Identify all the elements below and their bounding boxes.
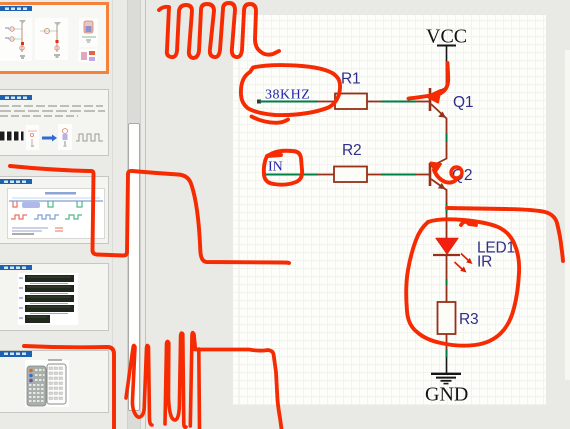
pin R2 left xyxy=(318,174,334,176)
slide 4 title bar xyxy=(0,265,32,270)
slide 1 sub-card d xyxy=(78,49,97,62)
title bar glyph marks xyxy=(4,8,27,356)
annotation blob around LED1 and R3 xyxy=(406,219,519,345)
svg-text:R3: R3 xyxy=(459,311,478,328)
pin Q1 collector upper xyxy=(446,71,448,87)
pin Q1 base xyxy=(416,101,430,103)
LED IR emission arrows xyxy=(455,254,473,273)
slide 4 oscilloscope bars xyxy=(19,275,74,323)
VCC power bar xyxy=(437,45,456,47)
slide 1 mini photo c xyxy=(82,21,96,42)
slide 1 mini photo d xyxy=(81,51,95,61)
ground symbol xyxy=(431,374,461,384)
wire R3 to GND xyxy=(446,334,448,349)
panel divider xyxy=(145,0,146,429)
slide 1 mini circuit a xyxy=(5,20,26,58)
svg-text:IN: IN xyxy=(268,160,283,175)
scrollbar track xyxy=(127,0,141,429)
slide 3 mini timing diagram xyxy=(9,192,103,234)
svg-text:VCC: VCC xyxy=(426,26,467,48)
annotation tail under ellipse xyxy=(252,117,289,123)
slide 2 blue arrow xyxy=(42,135,57,142)
wire VCC to Q1 collector (black part) xyxy=(446,46,448,62)
schematic sheet with grid xyxy=(233,15,546,405)
slide 5 title bar xyxy=(0,351,32,357)
LED1 cathode bar xyxy=(433,254,460,256)
annotation bottom tally marks xyxy=(126,345,152,425)
annotation squiggle top xyxy=(159,3,279,58)
pin Q2 base xyxy=(416,174,430,176)
slide 2 text lines xyxy=(0,105,103,107)
resistor R1 xyxy=(335,94,367,110)
node IN wire left xyxy=(263,174,318,176)
panel inner edge xyxy=(112,0,113,429)
slide card 2 xyxy=(0,89,109,156)
slide 1 sub-card a xyxy=(0,18,32,61)
slide 5 inner image xyxy=(25,360,69,407)
wire R2 to Q2 base xyxy=(381,174,416,176)
wire Q2 emitter to LED1 xyxy=(446,203,448,213)
slide 1 mini circuit b xyxy=(40,22,61,57)
slide 2 mini card b marks xyxy=(63,129,68,147)
slide 2 sub-card b xyxy=(58,124,72,150)
slide 2 sub-card a xyxy=(26,125,39,150)
annotation ellipse around 38KHZ xyxy=(241,65,340,115)
wire R1 to Q1 base xyxy=(381,101,416,103)
svg-text:GND: GND xyxy=(425,384,468,406)
slide card 3 xyxy=(0,176,109,244)
wire VCC to Q1 collector (green part) xyxy=(446,61,448,71)
slide 2 title bar xyxy=(0,95,32,100)
slide card 5 xyxy=(0,350,109,413)
pin Q2 collector xyxy=(431,142,447,167)
pin R1 left xyxy=(318,101,335,103)
annotation box around IN xyxy=(264,151,302,185)
resistor R3 xyxy=(438,302,456,334)
slide card 1 (selected, orange border) xyxy=(0,2,109,74)
node 38KHZ wire left xyxy=(260,101,318,103)
svg-text:R2: R2 xyxy=(342,142,361,159)
slide 3 inner image xyxy=(7,188,105,239)
slide 1 title bar xyxy=(0,6,32,11)
transistor Q2 xyxy=(430,163,447,203)
slide 4 inner image xyxy=(18,273,78,325)
annotation blob overdraw xyxy=(461,222,476,225)
pin R2 right xyxy=(367,174,381,176)
slide 2 mini card a marks xyxy=(28,131,37,146)
svg-text:Q1: Q1 xyxy=(453,94,473,111)
svg-text:IR: IR xyxy=(477,254,492,271)
wire Q1 emitter to Q2 collector xyxy=(446,133,448,142)
slide 2 square wave xyxy=(76,134,103,141)
resistor R2 xyxy=(334,167,367,183)
annotation left stroke path xyxy=(10,166,289,263)
slide 3 title bar xyxy=(0,179,32,184)
slide card 4 xyxy=(0,263,109,331)
transistor Q1 xyxy=(430,88,447,134)
junction dot 38KHZ wire start xyxy=(257,100,261,104)
annotation bottom horizontal to canvas xyxy=(195,350,282,429)
svg-text:38KHZ: 38KHZ xyxy=(265,87,310,102)
LED1 diode triangle xyxy=(436,238,459,255)
pin R1 right xyxy=(367,101,381,103)
left slide panel background xyxy=(0,0,146,429)
scrollbar thumb xyxy=(128,123,140,411)
wire LED1 to R3 xyxy=(446,255,448,279)
slide 2 barcode xyxy=(0,132,24,141)
annotation bottom-left horizontal xyxy=(24,346,114,429)
svg-text:R1: R1 xyxy=(341,71,360,88)
annotation arrow to Q2 xyxy=(434,170,457,183)
slide 1 sub-card b xyxy=(35,18,68,60)
annotation long line to right edge xyxy=(447,208,563,261)
annotation arrow to Q1 xyxy=(409,63,449,99)
slide 5 remote photo xyxy=(27,360,66,406)
right edge strip xyxy=(565,50,570,380)
slide 1 sub-card c xyxy=(79,18,98,47)
slide 2 barcode strip xyxy=(0,131,23,141)
